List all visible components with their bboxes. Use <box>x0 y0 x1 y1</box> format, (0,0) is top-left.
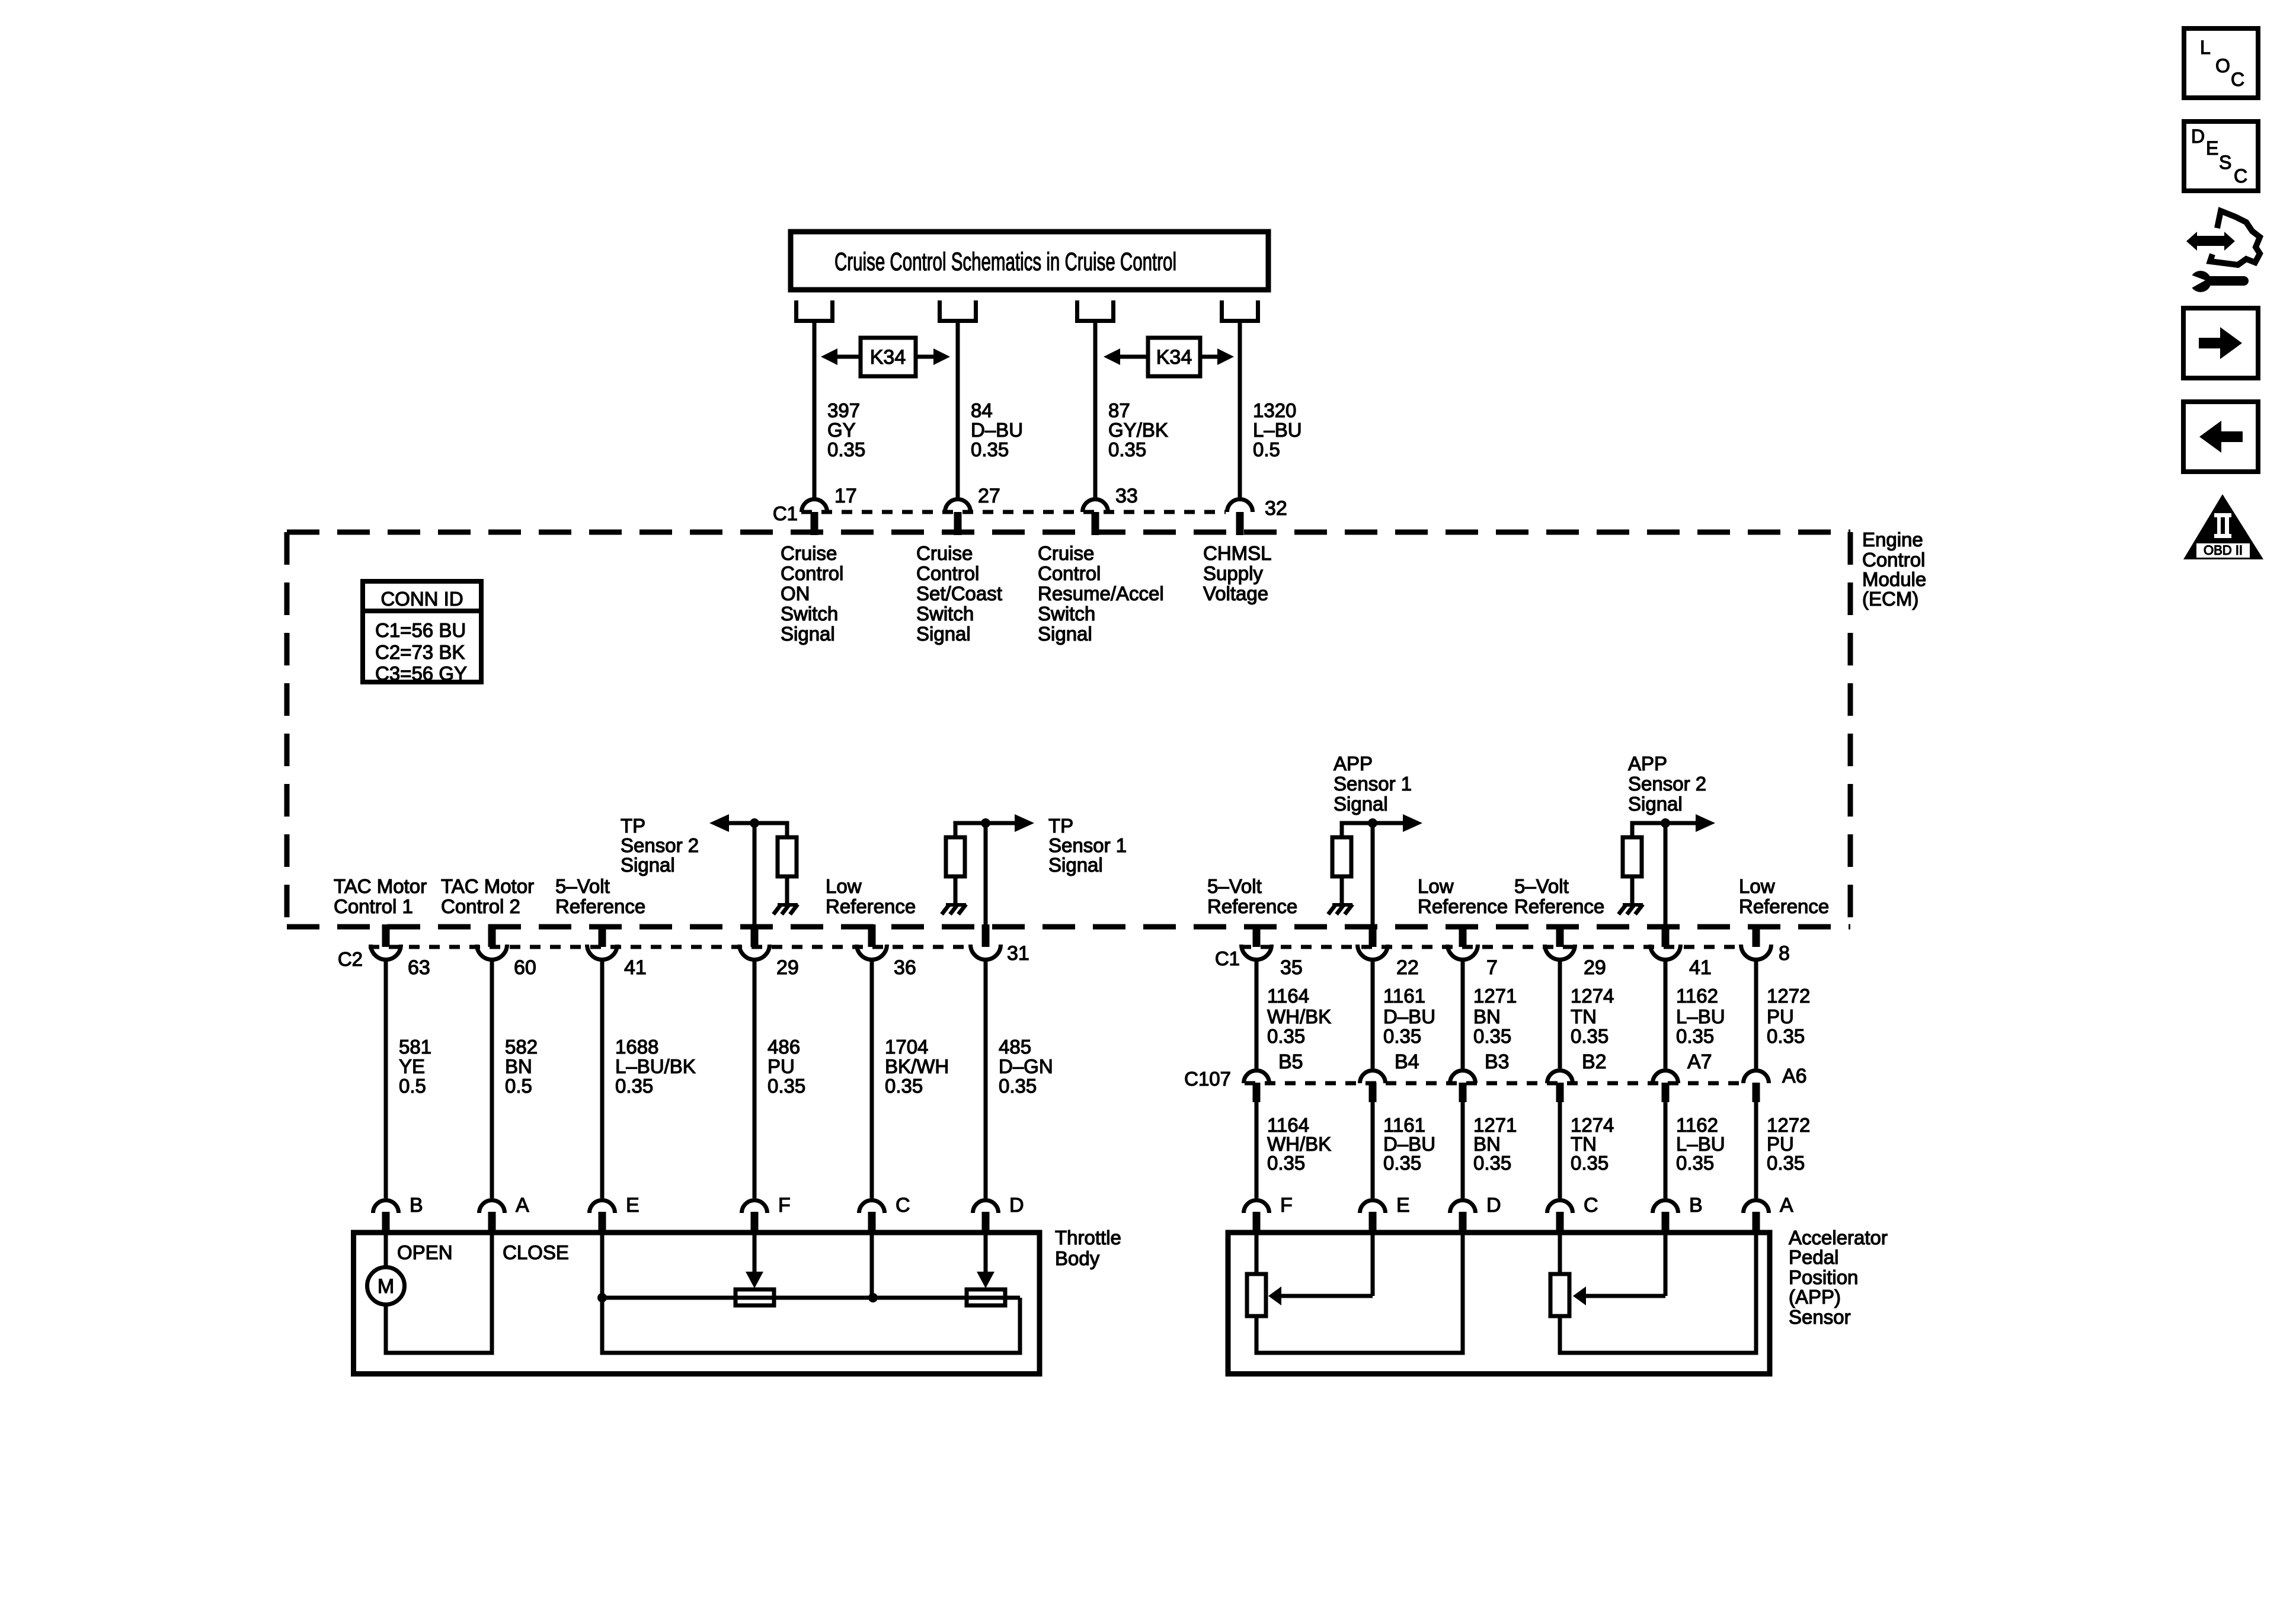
svg-text:36: 36 <box>894 956 916 979</box>
svg-text:0.35: 0.35 <box>827 438 865 460</box>
svg-text:Cruise Control Schematics in C: Cruise Control Schematics in Cruise Cont… <box>834 248 1176 276</box>
svg-text:8: 8 <box>1779 942 1790 965</box>
svg-text:397: 397 <box>827 399 860 421</box>
connector C2 pin 29 terminal <box>751 924 759 947</box>
svg-text:D: D <box>1009 1194 1024 1217</box>
connector C1 pin 33 terminal <box>1083 500 1108 513</box>
svg-text:Accelerator: Accelerator <box>1789 1227 1888 1249</box>
svg-text:Body: Body <box>1055 1247 1100 1269</box>
svg-text:1271: 1271 <box>1473 985 1517 1007</box>
svg-text:C1: C1 <box>773 502 798 524</box>
svg-text:1164: 1164 <box>1267 985 1309 1007</box>
wire from junction to TP1 resistor <box>955 823 986 837</box>
svg-text:D: D <box>2191 126 2205 147</box>
svg-text:Signal: Signal <box>1334 793 1388 815</box>
svg-text:C1: C1 <box>1215 948 1240 969</box>
node junction C (throttle pot) <box>868 1293 878 1302</box>
resistor R-APP1 <box>1332 837 1351 876</box>
svg-text:S: S <box>2219 152 2231 173</box>
svg-text:0.35: 0.35 <box>1473 1152 1511 1174</box>
svg-text:B5: B5 <box>1278 1051 1303 1073</box>
svg-text:Sensor 2: Sensor 2 <box>621 834 699 856</box>
svg-text:K34: K34 <box>1156 346 1192 369</box>
APP pot 2 wiper arrow from pin B <box>1664 1235 1668 1296</box>
svg-text:Cruise: Cruise <box>1038 542 1094 564</box>
svg-text:D: D <box>1486 1194 1501 1217</box>
wire 582 BN <box>490 961 494 1198</box>
resistor R-APP2 <box>1623 837 1642 876</box>
svg-text:Resume/Accel: Resume/Accel <box>1038 582 1164 604</box>
wire TP1 resistor to ground <box>954 876 958 903</box>
ECM dashed box left edge <box>284 532 290 927</box>
TP Sensor 2 signal arrow (left) <box>729 821 754 825</box>
svg-text:41: 41 <box>624 956 647 979</box>
svg-text:TP: TP <box>1048 815 1073 837</box>
Accelerator Pedal Position (APP) Sensor box <box>1228 1233 1770 1374</box>
ECM dashed box bottom edge <box>287 924 1850 930</box>
svg-text:0.35: 0.35 <box>1767 1025 1805 1047</box>
svg-text:Reference: Reference <box>1739 895 1829 917</box>
wire 1272 PU (ECM to C107) <box>1754 961 1758 1068</box>
svg-text:C3=56 GY: C3=56 GY <box>375 662 467 684</box>
wire 397 GY 0.35 (Cruise Control ON Switch Signal) <box>813 323 817 499</box>
svg-text:YE: YE <box>399 1055 425 1077</box>
connector C107 pin B4 terminal <box>1360 1071 1386 1084</box>
node junction APP Sensor 2 on wire 41 <box>1661 818 1670 828</box>
svg-text:60: 60 <box>514 956 536 979</box>
wire 87 GY/BK 0.35 (Cruise Control Resume/Accel Switch Signal) <box>1093 323 1098 499</box>
svg-text:Control 2: Control 2 <box>441 895 520 917</box>
svg-text:31: 31 <box>1007 942 1029 965</box>
svg-text:A7: A7 <box>1687 1051 1712 1073</box>
svg-text:CONN ID: CONN ID <box>380 588 463 610</box>
svg-text:84: 84 <box>971 399 993 421</box>
svg-text:Signal: Signal <box>1048 854 1103 876</box>
wire 1274 TN (C107 to APP sensor) <box>1558 1102 1562 1198</box>
harness bracket 2 <box>940 300 976 321</box>
svg-text:C: C <box>1584 1194 1598 1217</box>
wire 31 inside ECM (TP Sensor 1) <box>984 823 988 926</box>
connector C2 dashed harness line <box>369 945 972 949</box>
svg-text:(ECM): (ECM) <box>1862 588 1918 610</box>
svg-text:OPEN: OPEN <box>397 1241 453 1263</box>
wire 22 inside ECM (APP Sensor 1) <box>1371 823 1375 926</box>
svg-text:OBD II: OBD II <box>2204 543 2243 558</box>
connector C107 pin A6 terminal <box>1744 1071 1769 1084</box>
harness bracket 4 <box>1222 300 1258 321</box>
connector C1 pin 35 terminal (right block) <box>1253 924 1261 947</box>
svg-text:C2=73 BK: C2=73 BK <box>375 641 465 663</box>
wire 84 D-BU 0.35 (Cruise Control Set/Coast Switch Signal) <box>956 323 960 499</box>
svg-text:0.35: 0.35 <box>1383 1025 1421 1047</box>
svg-text:0.35: 0.35 <box>971 438 1009 460</box>
svg-text:Signal: Signal <box>621 854 675 876</box>
connector C1 pin 29 terminal (right block) <box>1556 924 1564 947</box>
APP Sensor 2 signal arrow (right) <box>1665 821 1696 825</box>
svg-text:Low: Low <box>1739 875 1775 897</box>
wire 1688 L–BU/BK <box>600 961 605 1198</box>
svg-text:0.35: 0.35 <box>1383 1152 1421 1174</box>
svg-text:ON: ON <box>781 582 810 604</box>
svg-text:1272: 1272 <box>1767 985 1810 1007</box>
svg-text:Control 1: Control 1 <box>334 895 413 917</box>
svg-text:F: F <box>778 1194 791 1217</box>
ground (APP Sensor 1) <box>1332 903 1352 907</box>
svg-text:Throttle: Throttle <box>1055 1227 1121 1249</box>
splice pack K34 (right) <box>1148 338 1200 376</box>
svg-text:0.35: 0.35 <box>615 1075 653 1097</box>
svg-text:D–BU: D–BU <box>971 419 1023 441</box>
svg-text:1688: 1688 <box>615 1036 658 1058</box>
svg-text:582: 582 <box>505 1036 538 1058</box>
wire 1162 L–BU (C107 to APP sensor) <box>1664 1102 1668 1198</box>
svg-text:E: E <box>2206 137 2218 159</box>
svg-text:TN: TN <box>1571 1006 1597 1028</box>
svg-text:Reference: Reference <box>1207 895 1297 917</box>
svg-text:Reference: Reference <box>1418 895 1508 917</box>
svg-text:K34: K34 <box>870 346 906 369</box>
wire 1271 BN (C107 to APP sensor) <box>1461 1102 1465 1198</box>
svg-text:Cruise: Cruise <box>916 542 973 564</box>
svg-text:BN: BN <box>505 1055 532 1077</box>
svg-text:27: 27 <box>978 485 1000 507</box>
wire 1164 WH/BK (ECM to C107) <box>1255 961 1259 1068</box>
wire 1704 BK/WH <box>870 961 874 1198</box>
wire 29 inside ECM (TP Sensor 2) <box>753 823 757 926</box>
svg-text:485: 485 <box>999 1036 1031 1058</box>
svg-text:C1=56 BU: C1=56 BU <box>375 619 466 641</box>
connector C107 dashed harness line <box>1245 1081 1740 1086</box>
harness bracket 1 <box>797 300 833 321</box>
svg-text:33: 33 <box>1115 485 1138 507</box>
svg-text:Engine: Engine <box>1862 529 1923 550</box>
wire from junction to APP2 resistor <box>1632 823 1665 837</box>
svg-text:GY: GY <box>827 419 856 441</box>
svg-text:7: 7 <box>1486 956 1498 979</box>
throttle pot wiper arrow from pin D <box>984 1235 988 1274</box>
connector C1 pin 27 terminal <box>945 500 971 513</box>
svg-text:0.35: 0.35 <box>1267 1025 1305 1047</box>
svg-text:TP: TP <box>621 815 645 837</box>
svg-text:B: B <box>410 1194 423 1217</box>
svg-text:Control: Control <box>1038 562 1101 584</box>
wire 485 D–GN <box>984 961 988 1198</box>
svg-text:Control: Control <box>916 562 979 584</box>
ground (TP Sensor 2) <box>778 903 798 907</box>
svg-text:Position: Position <box>1789 1266 1858 1288</box>
svg-text:1320: 1320 <box>1253 399 1296 421</box>
wire 1161 D–BU (ECM to C107) <box>1371 961 1375 1068</box>
svg-text:Reference: Reference <box>826 895 916 917</box>
APP sensor connector pin A <box>1744 1201 1769 1214</box>
node junction E (throttle pot supply) <box>597 1293 607 1302</box>
ground (TP Sensor 1) <box>946 903 966 907</box>
throttle pot wiper arrow from pin F <box>753 1235 757 1274</box>
svg-text:TAC Motor: TAC Motor <box>441 875 534 897</box>
TP Sensor 1 signal arrow (right) <box>986 821 1015 825</box>
icon back arrow box <box>2183 402 2258 472</box>
connector C107 pin B5 terminal <box>1244 1071 1269 1084</box>
svg-text:F: F <box>1280 1194 1293 1217</box>
svg-text:0.35: 0.35 <box>999 1075 1037 1097</box>
connector C1 pin 32 terminal <box>1227 500 1253 513</box>
splice pack K34 (left) <box>861 338 916 376</box>
svg-text:1162: 1162 <box>1676 985 1718 1007</box>
icon forward arrow box <box>2183 308 2258 378</box>
wire APP2 resistor to ground <box>1630 876 1635 903</box>
svg-text:0.35: 0.35 <box>885 1075 923 1097</box>
wire 1162 L–BU (ECM to C107) <box>1664 961 1668 1068</box>
connector C2 pin 60 terminal <box>488 924 496 947</box>
connector C2 pin 63 terminal <box>382 924 390 947</box>
svg-text:L–BU: L–BU <box>1253 419 1302 441</box>
wire pin B to motor <box>384 1235 388 1267</box>
wire pin C to APP pot 2 <box>1558 1235 1562 1274</box>
ECM dashed box top edge <box>287 530 1850 535</box>
svg-text:0.35: 0.35 <box>1267 1152 1305 1174</box>
svg-text:486: 486 <box>768 1036 800 1058</box>
connector C2 pin 31 terminal <box>982 924 990 947</box>
wire 1271 BN (ECM to C107) <box>1461 961 1465 1068</box>
APP sensor 2 potentiometer resistor <box>1550 1274 1569 1316</box>
svg-text:41: 41 <box>1689 956 1712 979</box>
svg-text:35: 35 <box>1280 956 1303 979</box>
throttle position sensor 2 resistor <box>736 1289 774 1305</box>
svg-text:Voltage: Voltage <box>1203 582 1268 604</box>
svg-text:0.35: 0.35 <box>1676 1025 1714 1047</box>
APP pot 1 return loop to pin D <box>1256 1235 1463 1353</box>
svg-text:Low: Low <box>826 875 862 897</box>
wire APP1 resistor to ground <box>1340 876 1344 903</box>
svg-text:Cruise: Cruise <box>781 542 837 564</box>
node junction APP Sensor 1 on wire 22 <box>1368 818 1377 828</box>
APP sensor connector pin F <box>1244 1201 1269 1214</box>
wire pin E to potentiometer junction <box>600 1235 605 1298</box>
connector C1 pin 8 terminal (right block) <box>1753 924 1760 947</box>
APP sensor 1 potentiometer resistor <box>1247 1274 1266 1316</box>
connector C1 dashed harness line (top) <box>801 510 1226 514</box>
svg-text:C: C <box>896 1194 910 1217</box>
CONN ID table box <box>363 581 481 682</box>
svg-text:O: O <box>2215 55 2230 76</box>
svg-text:0.35: 0.35 <box>1571 1152 1609 1174</box>
APP sensor connector pin D <box>1450 1201 1476 1214</box>
icon LOC box <box>2184 28 2258 98</box>
svg-text:5–Volt: 5–Volt <box>1207 875 1262 897</box>
connector C107 pin B3 terminal <box>1450 1071 1476 1084</box>
svg-text:5–Volt: 5–Volt <box>1514 875 1569 897</box>
svg-text:32: 32 <box>1265 497 1287 520</box>
svg-text:E: E <box>1396 1194 1410 1217</box>
svg-text:Set/Coast: Set/Coast <box>916 582 1002 604</box>
svg-text:Signal: Signal <box>1038 623 1092 645</box>
icon OBD II triangle <box>2183 494 2263 559</box>
svg-text:Supply: Supply <box>1203 562 1263 584</box>
ECM dashed box right edge <box>1848 532 1853 927</box>
throttle body connector pin E <box>590 1201 615 1214</box>
svg-text:B2: B2 <box>1582 1051 1607 1073</box>
svg-text:581: 581 <box>399 1036 431 1058</box>
APP sensor connector pin C <box>1547 1201 1573 1214</box>
throttle pot common wire <box>602 1296 1020 1300</box>
wire 1272 PU (C107 to APP sensor) <box>1754 1102 1758 1198</box>
APP sensor connector pin B <box>1653 1201 1678 1214</box>
svg-text:C2: C2 <box>338 948 363 970</box>
svg-text:17: 17 <box>834 485 857 507</box>
connector C1 dashed harness line (right block) <box>1240 945 1740 949</box>
throttle body connector pin D <box>973 1201 999 1214</box>
connector C1 pin 22 terminal (right block) <box>1369 924 1377 947</box>
svg-text:0.35: 0.35 <box>1473 1025 1511 1047</box>
connector C1 pin 7 terminal (right block) <box>1459 924 1467 947</box>
svg-text:0.35: 0.35 <box>1108 438 1146 460</box>
svg-text:Sensor: Sensor <box>1789 1306 1851 1328</box>
svg-text:PU: PU <box>1767 1006 1794 1028</box>
svg-text:Module: Module <box>1862 568 1926 590</box>
svg-text:APP: APP <box>1628 753 1667 774</box>
svg-text:B3: B3 <box>1485 1051 1510 1073</box>
APP sensor connector pin E <box>1360 1201 1386 1214</box>
icon DESC box <box>2184 121 2258 191</box>
throttle body connector pin F <box>742 1201 768 1214</box>
throttle pot return loop wire <box>602 1298 1020 1353</box>
svg-text:M: M <box>378 1275 394 1298</box>
svg-text:D–BU: D–BU <box>1383 1006 1435 1028</box>
svg-text:29: 29 <box>1584 956 1606 979</box>
wire from junction to TP2 resistor <box>754 823 787 837</box>
svg-text:PU: PU <box>768 1055 795 1077</box>
svg-text:WH/BK: WH/BK <box>1267 1006 1331 1028</box>
connector C1 pin 17 terminal <box>802 500 827 513</box>
svg-text:A: A <box>516 1194 529 1217</box>
svg-text:GY/BK: GY/BK <box>1108 419 1168 441</box>
svg-text:(APP): (APP) <box>1789 1286 1841 1308</box>
svg-text:Control: Control <box>781 562 843 584</box>
svg-text:Signal: Signal <box>916 623 971 645</box>
node junction TP Sensor 1 on wire 31 <box>981 818 990 828</box>
svg-text:Reference: Reference <box>555 895 645 917</box>
svg-text:Signal: Signal <box>1628 793 1683 815</box>
svg-text:BK/WH: BK/WH <box>885 1055 949 1077</box>
svg-text:B4: B4 <box>1395 1051 1419 1073</box>
icon service/repair (double arrow, outline, wrench) <box>2196 236 2224 246</box>
svg-text:C: C <box>2234 165 2247 187</box>
wire TP2 resistor to ground <box>785 876 789 903</box>
connector C2 pin 36 terminal <box>868 924 876 947</box>
resistor R-TP2 <box>778 837 797 876</box>
svg-text:5–Volt: 5–Volt <box>555 875 610 897</box>
wire 581 YE <box>384 961 388 1198</box>
wire from junction to APP1 resistor <box>1342 823 1373 837</box>
svg-text:0.5: 0.5 <box>1253 438 1280 460</box>
wire 1164 WH/BK (C107 to APP sensor) <box>1255 1102 1259 1198</box>
wire 1161 D–BU (C107 to APP sensor) <box>1371 1102 1375 1198</box>
connector C107 pin B2 terminal <box>1547 1071 1573 1084</box>
motor M1 (throttle actuator) <box>367 1267 405 1305</box>
svg-text:Sensor 1: Sensor 1 <box>1334 773 1412 795</box>
svg-text:1704: 1704 <box>885 1036 928 1058</box>
ground (APP Sensor 2) <box>1623 903 1643 907</box>
svg-text:C: C <box>2231 69 2244 90</box>
svg-text:L–BU: L–BU <box>1676 1006 1725 1028</box>
svg-text:CHMSL: CHMSL <box>1203 542 1272 564</box>
wire motor loop to pin A <box>386 1235 492 1353</box>
svg-text:L: L <box>2200 37 2211 58</box>
svg-text:Low: Low <box>1418 875 1454 897</box>
svg-text:Pedal: Pedal <box>1789 1246 1838 1268</box>
wire pin F to APP pot 1 <box>1255 1235 1259 1274</box>
svg-text:A: A <box>1780 1194 1793 1217</box>
wire 1320 L-BU 0.5 (CHMSL Supply Voltage) <box>1238 323 1242 499</box>
svg-text:E: E <box>626 1194 639 1217</box>
svg-text:L–BU/BK: L–BU/BK <box>615 1055 696 1077</box>
svg-text:1274: 1274 <box>1571 985 1614 1007</box>
svg-text:29: 29 <box>776 956 799 979</box>
svg-text:Control: Control <box>1862 549 1925 571</box>
svg-text:0.35: 0.35 <box>768 1075 805 1097</box>
svg-text:TAC Motor: TAC Motor <box>334 875 427 897</box>
throttle body connector pin C <box>859 1201 885 1214</box>
svg-text:22: 22 <box>1396 956 1419 979</box>
svg-text:Switch: Switch <box>1038 603 1095 625</box>
svg-text:0.35: 0.35 <box>1571 1025 1609 1047</box>
svg-text:Switch: Switch <box>916 603 974 625</box>
svg-text:1161: 1161 <box>1383 985 1425 1007</box>
wire pin C to pot junction <box>870 1235 874 1298</box>
APP pot 2 return loop to pin A <box>1560 1235 1756 1353</box>
svg-text:0.35: 0.35 <box>1767 1152 1805 1174</box>
harness bracket 3 <box>1077 300 1114 321</box>
svg-text:BN: BN <box>1473 1006 1501 1028</box>
svg-text:A6: A6 <box>1782 1065 1807 1087</box>
throttle body connector pin B <box>373 1201 399 1214</box>
svg-text:Switch: Switch <box>781 603 838 625</box>
svg-text:APP: APP <box>1334 753 1373 774</box>
svg-text:Reference: Reference <box>1514 895 1604 917</box>
connector C1 pin 41 terminal (right block) <box>1662 924 1670 947</box>
throttle body connector pin A <box>479 1201 505 1214</box>
title box: Cruise Control Schematics in Cruise Control <box>791 232 1268 290</box>
svg-text:0.5: 0.5 <box>505 1075 532 1097</box>
connector C2 pin 41 terminal <box>599 924 606 947</box>
svg-text:Sensor 1: Sensor 1 <box>1048 834 1127 856</box>
svg-text:B: B <box>1689 1194 1703 1217</box>
APP pot 1 wiper arrow from pin E <box>1371 1235 1375 1296</box>
svg-text:Sensor 2: Sensor 2 <box>1628 773 1706 795</box>
svg-text:C107: C107 <box>1184 1068 1231 1090</box>
resistor R-TP1 <box>946 837 965 876</box>
wire 1274 TN (ECM to C107) <box>1558 961 1562 1068</box>
throttle position sensor 1 resistor <box>967 1289 1005 1305</box>
node junction TP Sensor 2 on wire 29 <box>750 818 759 828</box>
wire 41 inside ECM (APP Sensor 2) <box>1664 823 1668 926</box>
svg-text:87: 87 <box>1108 399 1130 421</box>
wire 486 PU <box>753 961 757 1198</box>
Throttle Body box <box>354 1233 1040 1374</box>
svg-text:0.35: 0.35 <box>1676 1152 1714 1174</box>
svg-text:CLOSE: CLOSE <box>503 1241 569 1263</box>
APP Sensor 1 signal arrow (right) <box>1373 821 1403 825</box>
svg-text:0.5: 0.5 <box>399 1075 426 1097</box>
svg-text:D–GN: D–GN <box>999 1055 1053 1077</box>
svg-text:63: 63 <box>408 956 430 979</box>
connector C107 pin A7 terminal <box>1653 1071 1678 1084</box>
svg-text:Signal: Signal <box>781 623 835 645</box>
